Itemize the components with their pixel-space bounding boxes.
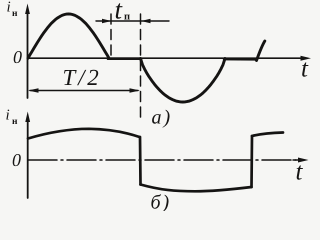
dimension T/2 [28,88,140,92]
svg-text:п: п [124,12,130,23]
next period rising stroke plot a [257,41,265,61]
label a) [152,107,173,129]
svg-text:t: t [301,56,309,83]
dashed line at pause end [140,14,142,118]
label i_n plot b [6,108,19,128]
svg-text:н: н [12,117,18,127]
svg-text:0: 0 [12,150,21,170]
dashed line at pause start [110,14,112,56]
svg-text:н: н [12,9,18,19]
svg-text:t: t [296,159,304,186]
falling edge plot b [139,137,142,185]
rising edge plot b [250,136,253,187]
y-axis plot b [25,112,30,199]
label b) [151,192,172,214]
origin label 0 plot a [13,47,22,67]
negative half-wave plot a [141,59,226,103]
label t plot a [301,56,309,83]
positive half-sine plot a [28,14,109,58]
svg-text:i: i [7,0,11,16]
x-axis plot b (dash-dot zero line) [28,158,309,163]
label t_p [115,0,131,25]
svg-text:а): а) [152,107,173,129]
negative flat bottom plot b [141,185,252,192]
x-axis plot a [28,56,312,61]
label t plot b [296,159,304,186]
svg-text:T/2: T/2 [63,65,102,90]
origin label 0 plot b [12,150,21,170]
y-axis plot a [25,4,30,99]
dimension arrows t_p [96,19,169,23]
label T/2 [63,65,102,90]
svg-text:б): б) [151,192,172,212]
next period top segment plot b [252,133,283,137]
label i_n plot a [7,0,19,19]
svg-text:0: 0 [13,47,22,67]
zero-level segment after negative lobe plot a [224,58,257,61]
svg-text:i: i [6,108,10,124]
flattened positive hump plot b [28,129,140,139]
zero-level pause segment plot a [108,57,141,60]
